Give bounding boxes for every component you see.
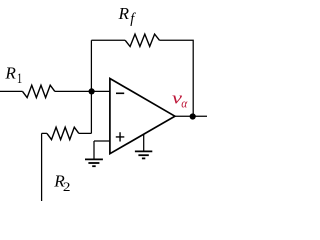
svg-text:R: R bbox=[4, 64, 16, 83]
svg-text:1: 1 bbox=[17, 70, 22, 86]
svg-text:2: 2 bbox=[63, 180, 71, 195]
svg-text:R: R bbox=[118, 4, 130, 23]
svg-text:f: f bbox=[130, 11, 136, 27]
svg-text:α: α bbox=[181, 96, 188, 111]
